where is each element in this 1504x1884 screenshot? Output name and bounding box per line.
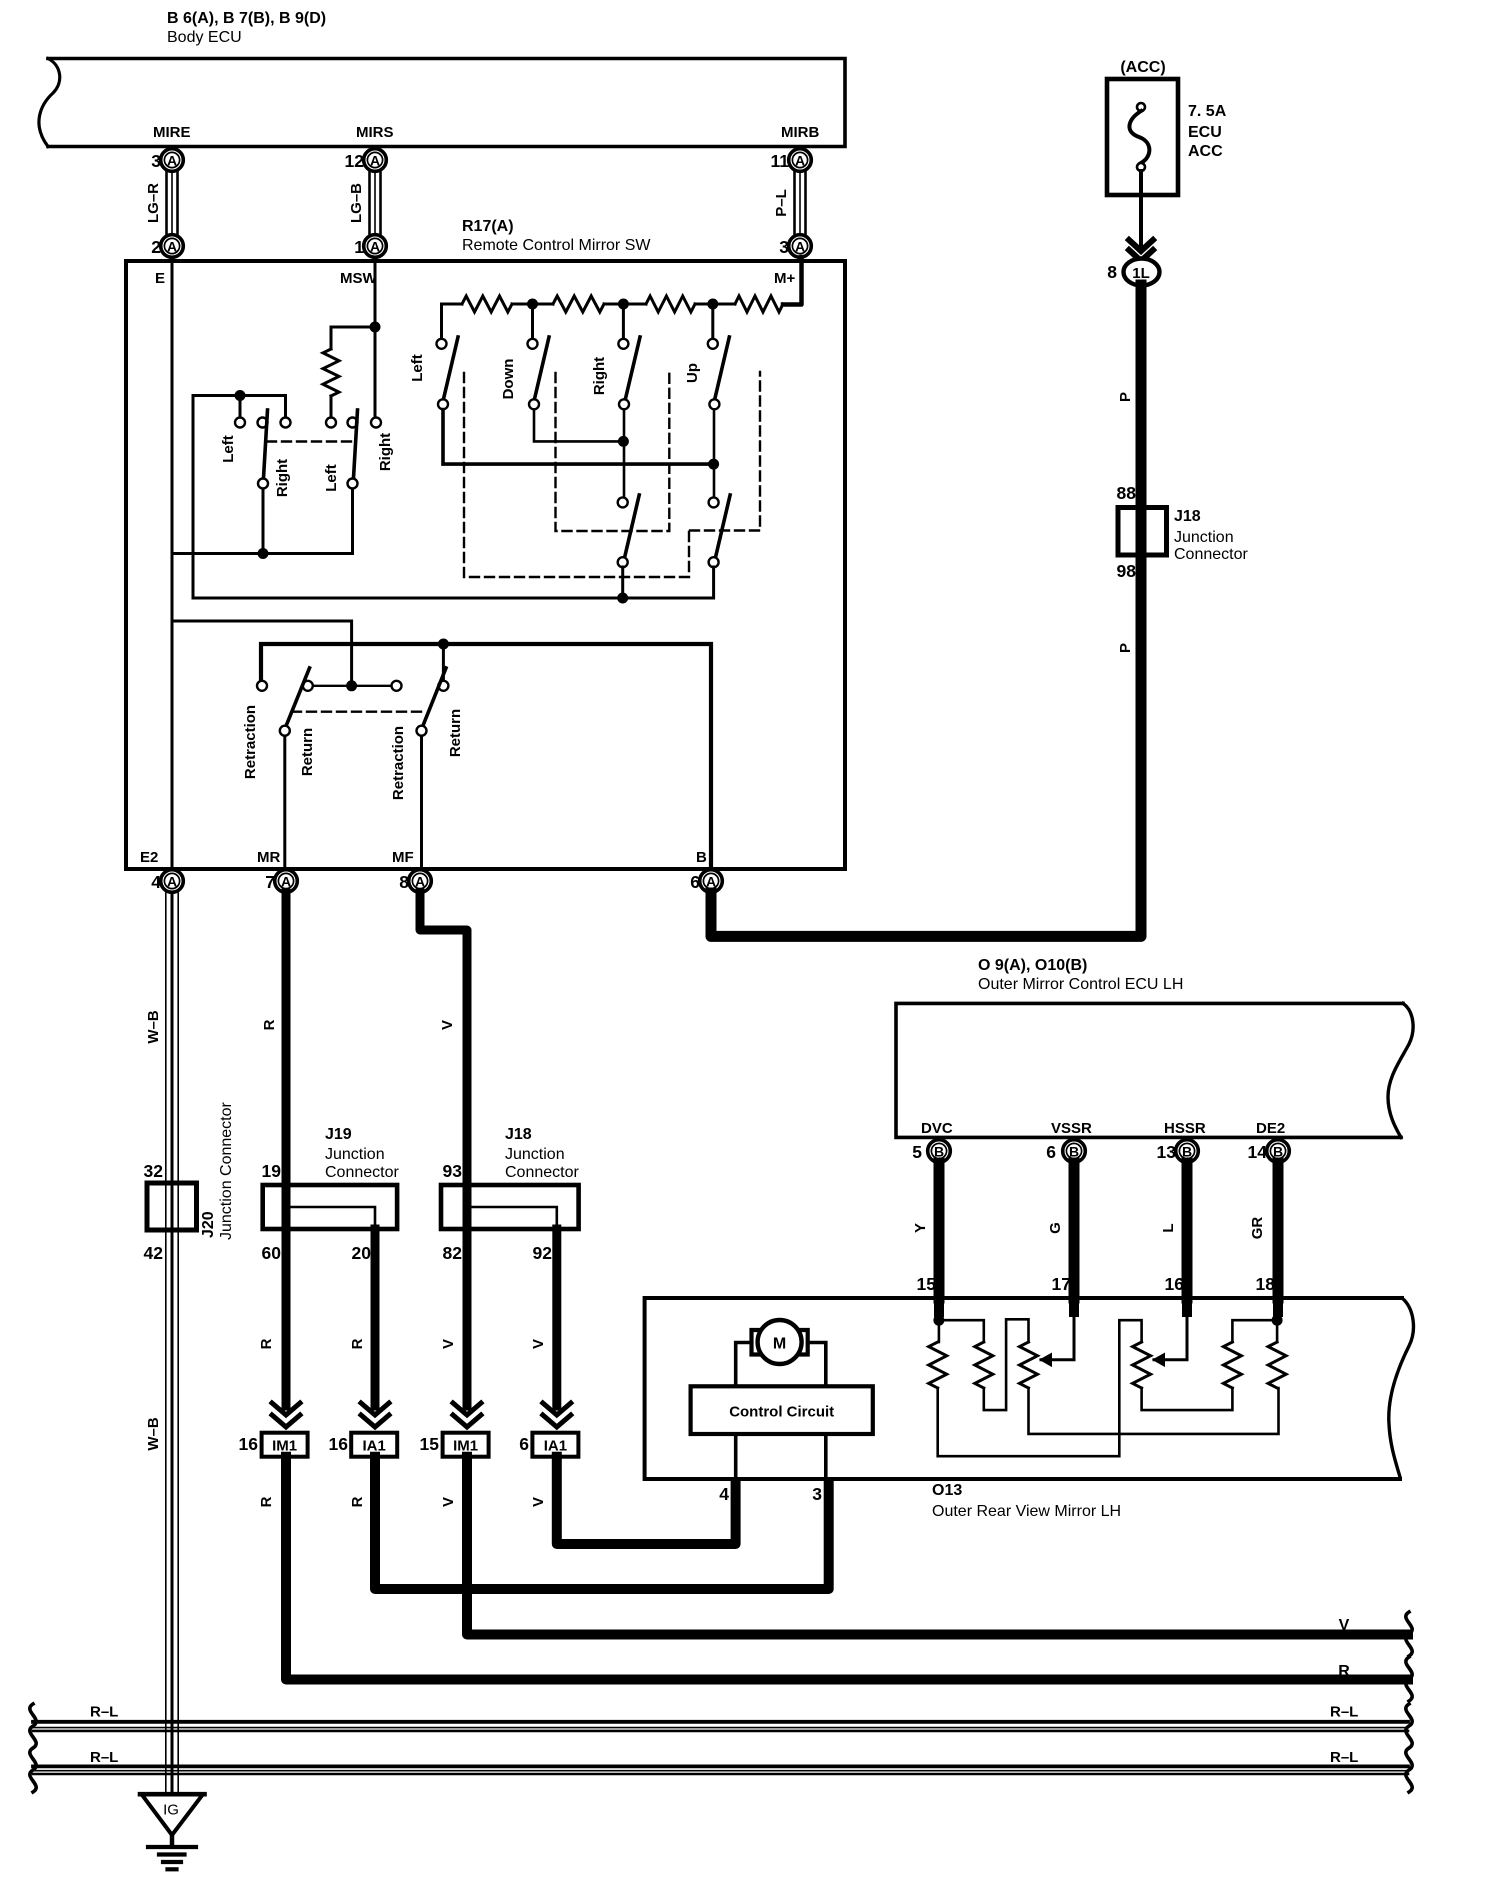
svg-text:Down: Down (500, 359, 517, 400)
connector pin 5(B) DVC (912, 1140, 950, 1163)
svg-text:J19: J19 (325, 1126, 352, 1143)
wire MR from blade (283, 736, 286, 867)
shield arrows w4 (543, 1403, 571, 1427)
wire stub to Left contact (239, 396, 242, 417)
wire dot2 to Rf (1276, 1320, 1279, 1342)
wire retract B bar thick (261, 644, 711, 881)
svg-text:A: A (795, 239, 805, 255)
svg-text:J18: J18 (1174, 508, 1201, 525)
wire J18 through (463, 1185, 472, 1229)
svg-text:Left: Left (220, 435, 237, 463)
connector pin 12(A) MIRS (345, 149, 387, 172)
svg-text:V: V (1339, 1617, 1350, 1634)
switch blade Right (625, 337, 640, 399)
svg-text:M+: M+ (774, 270, 795, 287)
connector pin 2(A) E (151, 235, 183, 258)
label J18 left (505, 1126, 579, 1181)
shield arrows w2 (361, 1403, 389, 1427)
svg-text:B: B (1069, 1144, 1079, 1160)
resistor chain R2 (553, 296, 604, 312)
node pot dot1 (933, 1315, 944, 1326)
wire control circuit pins down (736, 1434, 826, 1477)
wire Up lower down (713, 410, 716, 498)
wire J18 internal branch (467, 1207, 557, 1227)
svg-text:IG: IG (163, 1802, 179, 1819)
svg-text:Connector: Connector (505, 1164, 579, 1181)
node chain junction 2 (618, 299, 629, 310)
svg-text:92: 92 (533, 1243, 553, 1263)
svg-text:A: A (415, 874, 425, 890)
svg-text:Up: Up (684, 363, 701, 383)
svg-text:Control Circuit: Control Circuit (729, 1404, 834, 1421)
svg-text:M: M (773, 1336, 786, 1353)
fuse element (1129, 103, 1149, 195)
junction connector J18 right box (1118, 508, 1167, 556)
svg-text:P: P (1117, 643, 1134, 653)
svg-text:P: P (1117, 392, 1134, 402)
torn ends R-L 1 (30, 1704, 1412, 1748)
resistor Rc (1020, 1342, 1038, 1388)
svg-text:P–L: P–L (773, 189, 790, 217)
svg-text:Remote Control Mirror SW: Remote Control Mirror SW (462, 237, 651, 254)
wiper arrow 1 (1039, 1353, 1052, 1368)
torn end V line (1406, 1612, 1412, 1656)
svg-text:A: A (167, 874, 177, 890)
switch blade Left (444, 337, 459, 399)
svg-text:8: 8 (1107, 262, 1117, 282)
svg-text:MIRE: MIRE (153, 124, 191, 141)
svg-text:42: 42 (144, 1243, 164, 1263)
wire L HSSR down (1182, 1163, 1193, 1298)
svg-text:B: B (1273, 1144, 1283, 1160)
resistor chain R4 (735, 296, 783, 312)
connector pin 6(B) VSSR (1046, 1140, 1085, 1163)
label fuse rating (1188, 103, 1227, 160)
label Body ECU header (167, 10, 326, 46)
svg-text:Retraction: Retraction (390, 726, 407, 800)
svg-text:15: 15 (420, 1434, 440, 1454)
connector IM1 a (239, 1433, 308, 1457)
wire dot1 to Rb (939, 1320, 984, 1342)
svg-text:G: G (1047, 1222, 1064, 1234)
svg-text:B: B (1182, 1144, 1192, 1160)
svg-text:Right: Right (274, 459, 291, 497)
contact circle retract left lower (280, 726, 290, 736)
svg-text:B 6(A), B 7(B), B 9(D): B 6(A), B 7(B), B 9(D) (167, 10, 326, 27)
node J19 branch (282, 1203, 291, 1212)
svg-text:R: R (258, 1338, 275, 1349)
wire J19 through (282, 1185, 291, 1229)
wire select top bar (193, 396, 286, 599)
wire Rc bottom to Rf bottom (1029, 1388, 1279, 1434)
junction connector J18 left box (441, 1185, 579, 1229)
wire resistor to contact (330, 396, 333, 416)
wire w4 to O13 pin4 (557, 1457, 736, 1544)
wire 82 down (463, 1229, 472, 1406)
svg-text:MF: MF (392, 849, 414, 866)
wire long bottom bar to switches (193, 567, 714, 598)
wire P down to J18 (1136, 285, 1147, 507)
ground IG (140, 1794, 205, 1869)
shield arrows w1 (272, 1403, 300, 1427)
wire V MF down with jog (420, 893, 467, 1185)
contact circles row select switch (235, 418, 381, 428)
wire fuse down (1139, 195, 1143, 245)
svg-text:J20: J20 (200, 1211, 217, 1238)
svg-text:Right: Right (377, 433, 394, 471)
svg-text:W–B: W–B (145, 1010, 162, 1044)
wire Right lower down (623, 410, 626, 498)
svg-text:16: 16 (329, 1434, 349, 1454)
node chain junction 1 (527, 299, 538, 310)
contact circle select left lower (258, 479, 268, 489)
svg-text:12: 12 (345, 151, 365, 171)
svg-text:GR: GR (1249, 1217, 1266, 1240)
switch blade B (716, 495, 731, 557)
svg-text:R–L: R–L (90, 1704, 118, 1721)
contact circle switchA bottom (618, 557, 628, 567)
svg-text:32: 32 (144, 1161, 164, 1181)
wire Re top to dot2 (1232, 1320, 1277, 1342)
switch blade A (625, 495, 640, 557)
wire M+ down to chain (783, 257, 802, 305)
svg-text:88: 88 (1117, 483, 1137, 503)
wire J19 internal branch (286, 1207, 375, 1227)
switch blade Up (715, 337, 730, 399)
svg-text:MIRB: MIRB (781, 124, 819, 141)
svg-text:16: 16 (1165, 1274, 1185, 1294)
switch blade Down (535, 337, 550, 399)
svg-text:ACC: ACC (1188, 143, 1223, 160)
torn ends R-L 2 (30, 1748, 1412, 1792)
O13 box (torn right edge) (645, 1298, 1414, 1479)
linkage dashed Left-pair (464, 373, 689, 577)
wire LG-B striped MIRS to MSW (370, 171, 381, 235)
connector pin 4(A) E2 (151, 870, 183, 893)
svg-text:R: R (258, 1496, 275, 1507)
svg-text:Right: Right (591, 357, 608, 395)
svg-text:L: L (1160, 1223, 1177, 1232)
wire W-B E2 down (striped) (166, 893, 178, 1794)
wire select commons to E bar (172, 489, 353, 554)
node bar2 junction (618, 436, 629, 447)
connector pin 3(A) MIRE (151, 149, 183, 172)
svg-text:60: 60 (262, 1243, 282, 1263)
svg-text:R: R (349, 1496, 366, 1507)
junction connector J19 box (263, 1185, 397, 1229)
svg-text:Left: Left (323, 464, 340, 492)
node pot dot2 (1272, 1315, 1283, 1326)
svg-text:R17(A): R17(A) (462, 218, 514, 235)
svg-text:Junction: Junction (1174, 529, 1234, 546)
svg-text:B: B (934, 1144, 944, 1160)
wire 17 wiper (1069, 1296, 1079, 1312)
contact circle switchA top (618, 497, 628, 507)
resistor MSW pull (323, 349, 339, 396)
wire G VSSR down (1069, 1163, 1080, 1298)
switch blade retract left (286, 668, 310, 726)
connector pin 11(A) MIRB (771, 149, 812, 172)
node select bar junction (235, 390, 246, 401)
svg-text:Return: Return (447, 709, 464, 757)
svg-text:1L: 1L (1132, 265, 1150, 282)
shield arrows w3 (453, 1403, 481, 1427)
node chain junction 3 (707, 299, 718, 310)
svg-text:A: A (167, 153, 177, 169)
svg-text:Junction: Junction (505, 1146, 565, 1163)
wire 92 down (552, 1229, 561, 1406)
svg-text:LG–R: LG–R (145, 183, 162, 223)
wire Rb to Rc snake (984, 1319, 1029, 1410)
svg-text:J18: J18 (505, 1126, 532, 1143)
switch blade select right (354, 410, 358, 478)
connector pin 14(B) DE2 (1248, 1140, 1290, 1163)
svg-text:A: A (281, 874, 291, 890)
svg-text:MSW: MSW (340, 270, 378, 287)
svg-text:Outer Rear View Mirror LH: Outer Rear View Mirror LH (932, 1503, 1121, 1520)
svg-text:V: V (440, 1497, 457, 1507)
wire chain stubs down (533, 304, 713, 338)
wire chain links (442, 304, 736, 343)
linkage dashed select (267, 440, 352, 442)
svg-text:Left: Left (409, 354, 426, 382)
wire MF from blade (420, 736, 423, 867)
contact circle switchB bottom (709, 557, 719, 567)
svg-text:Junction Connector: Junction Connector (218, 1101, 235, 1240)
svg-text:Outer Mirror Control ECU LH: Outer Mirror Control ECU LH (978, 976, 1183, 993)
svg-text:6: 6 (1046, 1142, 1056, 1162)
wire R MR down (282, 893, 291, 1185)
svg-text:R: R (349, 1338, 366, 1349)
wire MSW vertical (374, 263, 377, 417)
svg-text:LG–B: LG–B (348, 183, 365, 223)
node crossbar junction (708, 459, 719, 470)
resistor chain R3 (646, 296, 695, 312)
control circuit box (691, 1386, 873, 1434)
svg-text:14: 14 (1248, 1142, 1268, 1162)
linkage dashed retract (292, 711, 424, 713)
svg-text:Junction: Junction (325, 1146, 385, 1163)
svg-text:A: A (370, 153, 380, 169)
label J19 (325, 1126, 399, 1181)
wire 18 entry (1273, 1296, 1283, 1312)
svg-text:V: V (530, 1497, 547, 1507)
svg-text:16: 16 (239, 1434, 259, 1454)
resistor chain R1 (462, 296, 512, 312)
wire w3 to V line (467, 1457, 1408, 1635)
wire Down lower to bar2 (534, 410, 618, 442)
connector pin 1(A) MSW (354, 235, 386, 258)
svg-text:Connector: Connector (1174, 546, 1248, 563)
wire Y DVC down (934, 1163, 945, 1298)
wire stub retract junction down (442, 644, 445, 680)
connector pin 3(A) M+ (779, 235, 811, 258)
svg-text:E2: E2 (140, 849, 158, 866)
svg-text:VSSR: VSSR (1051, 1120, 1092, 1137)
R-L line 2 (33, 1766, 1408, 1774)
wire dot1 to Ra (938, 1320, 941, 1342)
svg-text:4: 4 (719, 1484, 729, 1504)
connector IA1 a (329, 1433, 398, 1457)
svg-text:A: A (795, 153, 805, 169)
svg-text:(ACC): (ACC) (1120, 59, 1165, 76)
wire w1 to R line (286, 1457, 1408, 1680)
svg-text:DVC: DVC (921, 1120, 953, 1137)
node J18 branch (463, 1203, 472, 1212)
connector pin 8 (1L) (1107, 259, 1159, 286)
svg-text:V: V (530, 1339, 547, 1349)
svg-text:11: 11 (771, 151, 790, 171)
wire 15 entry (934, 1296, 944, 1312)
torn end R line (1406, 1657, 1412, 1701)
R17 switch box outline (126, 261, 845, 869)
svg-text:B: B (696, 849, 707, 866)
label J18 right (1174, 508, 1248, 563)
linkage dashed Down-Right (556, 373, 670, 531)
resistor Rd (1133, 1342, 1151, 1388)
svg-text:20: 20 (352, 1243, 372, 1263)
svg-text:15: 15 (917, 1274, 937, 1294)
svg-text:ECU: ECU (1188, 124, 1222, 141)
svg-text:Body ECU: Body ECU (167, 29, 242, 46)
connector pin 13(B) HSSR (1157, 1140, 1199, 1163)
wire retract top thin (172, 621, 352, 680)
svg-text:O 9(A), O10(B): O 9(A), O10(B) (978, 957, 1087, 974)
wire 60 down (282, 1229, 291, 1406)
label O13 (932, 1482, 1121, 1520)
linkage dashed Up-pair (690, 372, 760, 531)
contact circle retract right lower (417, 726, 427, 736)
svg-text:13: 13 (1157, 1142, 1177, 1162)
svg-text:A: A (706, 874, 716, 890)
connector IA1 b (519, 1433, 578, 1457)
svg-text:E: E (155, 270, 165, 287)
svg-text:R–L: R–L (90, 1749, 118, 1766)
svg-text:19: 19 (262, 1161, 282, 1181)
resistor Re (1223, 1342, 1241, 1388)
svg-text:V: V (439, 1020, 456, 1030)
wire MSW to resistor (331, 327, 375, 349)
svg-text:R: R (261, 1019, 278, 1030)
svg-text:98: 98 (1117, 561, 1137, 581)
svg-text:R–L: R–L (1330, 1749, 1358, 1766)
switch blade retract right (423, 668, 446, 726)
svg-text:R–L: R–L (1330, 1704, 1358, 1721)
switch blade select left (264, 410, 268, 478)
svg-text:O13: O13 (932, 1482, 962, 1499)
connector pin 8(A) MF (399, 870, 431, 893)
connector pin 7(A) MR (265, 870, 297, 893)
wiper arrow 2 (1152, 1353, 1165, 1368)
label O9 header (978, 957, 1183, 993)
svg-text:A: A (370, 239, 380, 255)
node retract thin bar junction (346, 680, 357, 691)
contact circles direction top row (437, 339, 718, 349)
node bottom bar junction (617, 593, 628, 604)
wire P-L striped MIRB to M+ (795, 171, 806, 235)
contact circle select right lower (348, 479, 358, 489)
contact circle switchB top (709, 497, 719, 507)
contact circles direction lower row (438, 399, 719, 409)
motor M (752, 1320, 808, 1364)
node retract B bar junction (438, 639, 449, 650)
resistor Rf (1268, 1342, 1286, 1388)
svg-text:MR: MR (257, 849, 280, 866)
wire E vertical (171, 263, 174, 867)
wire Ra bottom to Rd top (938, 1320, 1142, 1456)
wire GR DE2 down (1273, 1163, 1284, 1298)
wire Rd bottom to Re bottom (1142, 1388, 1233, 1410)
connector IM1 b (420, 1433, 489, 1457)
wire motor leads (736, 1343, 826, 1387)
svg-text:MIRS: MIRS (356, 124, 394, 141)
wire Left lower to cross bar (443, 410, 708, 465)
svg-text:17: 17 (1052, 1274, 1071, 1294)
wire 20 down (371, 1229, 380, 1406)
svg-text:A: A (167, 239, 177, 255)
svg-text:W–B: W–B (145, 1417, 162, 1451)
O9 ECU box (torn right edge) (896, 1003, 1413, 1137)
svg-text:3: 3 (812, 1484, 822, 1504)
svg-text:V: V (440, 1339, 457, 1349)
label R17(A) header (462, 218, 651, 254)
svg-text:18: 18 (1256, 1274, 1276, 1294)
wire w2 to O13 pin3 (375, 1457, 829, 1589)
resistor Ra (929, 1342, 947, 1388)
svg-text:DE2: DE2 (1256, 1120, 1285, 1137)
connector pin 6(A) B (690, 870, 722, 893)
wire LG-R striped MIRE to E (167, 171, 178, 235)
fuse ECU ACC box (1107, 79, 1178, 195)
contact circles retraction row (257, 681, 448, 691)
wire retract thin bar (308, 685, 397, 687)
shield arrow fuse wire (1129, 240, 1153, 261)
node select common junction (258, 548, 269, 559)
svg-text:6: 6 (519, 1434, 529, 1454)
Body ECU box (torn left edge) (39, 59, 845, 147)
svg-text:Return: Return (299, 728, 316, 776)
R-L line 1 (33, 1722, 1408, 1731)
node MSW junction (370, 322, 381, 333)
svg-text:7. 5A: 7. 5A (1188, 103, 1227, 120)
svg-text:5: 5 (912, 1142, 922, 1162)
svg-text:R: R (1338, 1663, 1350, 1680)
svg-text:HSSR: HSSR (1164, 1120, 1206, 1137)
svg-text:Connector: Connector (325, 1164, 399, 1181)
svg-text:Retraction: Retraction (242, 705, 259, 779)
junction connector J20 box (147, 1183, 197, 1230)
wire P J18 to B (711, 507, 1141, 936)
svg-text:Y: Y (912, 1223, 929, 1233)
svg-text:93: 93 (443, 1161, 463, 1181)
resistor Rb (975, 1342, 993, 1388)
svg-text:82: 82 (443, 1243, 463, 1263)
wire 16 wiper (1182, 1296, 1192, 1312)
